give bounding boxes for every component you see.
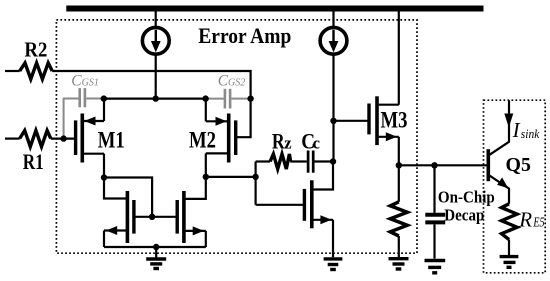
svg-text:Error Amp: Error Amp	[198, 23, 291, 48]
resistor R2	[20, 63, 53, 79]
node dot mirror gates	[149, 214, 155, 220]
transistor MS	[303, 189, 306, 221]
wire M3 gate	[334, 120, 370, 122]
transistor ML (mirror left NMOS)	[126, 191, 130, 243]
ground RE5	[500, 255, 519, 258]
resistor load (on-chip)	[390, 202, 407, 236]
node dot M1 drain	[101, 174, 107, 180]
current source I1	[142, 27, 169, 54]
node dot CGS1/M1 source	[101, 95, 107, 101]
wire M1 drain to mirror left drain	[104, 178, 126, 199]
node dot decap tee	[431, 162, 437, 168]
svg-text:Q5: Q5	[506, 154, 531, 176]
svg-text:c: c	[313, 134, 320, 153]
wire to Rz	[256, 160, 271, 162]
ground MS	[324, 257, 343, 260]
svg-text:I: I	[512, 118, 521, 142]
M2 gate wire to R2 column	[236, 99, 251, 138]
svg-text:R: R	[518, 207, 532, 231]
VDD power rail	[66, 6, 483, 12]
node dot mirror ground	[153, 244, 159, 250]
transistor MR (mirror right NMOS)	[182, 191, 186, 243]
wire load resistor column	[398, 165, 400, 202]
svg-text:sink: sink	[521, 127, 540, 141]
resistor Rz	[270, 154, 291, 169]
wire M2 source up to tail node	[205, 99, 207, 122]
svg-text:On-Chip: On-Chip	[438, 187, 495, 206]
wire Rz to Cc	[290, 160, 307, 162]
wire M3 source to output node	[398, 137, 400, 166]
wire first stage output	[206, 176, 256, 178]
wire decap to ground	[433, 224, 435, 258]
wire decap column	[433, 165, 435, 213]
wire M1 source up to tail node	[103, 99, 105, 121]
svg-text:M1: M1	[98, 127, 125, 153]
ground load resistor	[389, 257, 409, 260]
node dot second stage output	[330, 158, 336, 164]
node dot M2 source	[202, 95, 208, 101]
resistor R1	[20, 131, 51, 147]
capacitor on-chip decap	[425, 213, 445, 217]
svg-text:M3: M3	[381, 108, 408, 134]
wire tail from rail to current source	[155, 12, 157, 29]
wire output node to Q5 base	[399, 164, 487, 166]
wire R1 input stub	[5, 138, 20, 140]
wire current source to diff pair sources	[155, 54, 157, 98]
wire M1 drain node to mirror gate column	[104, 178, 152, 217]
node dot M3 gate	[330, 118, 336, 124]
current source I2	[320, 27, 347, 54]
wire M3 drain to rail	[398, 12, 400, 105]
capacitor Cc	[307, 151, 310, 173]
Q5 collector	[490, 100, 510, 155]
wire CS2 down to M3 gate and Cc node	[332, 54, 334, 161]
Error Amp dashed box	[56, 20, 417, 253]
capacitor CGS2 plates	[224, 89, 227, 109]
transistor M2 (PMOS right of diff pair)	[234, 120, 237, 155]
node dot tail	[153, 95, 159, 101]
ground decap	[425, 259, 446, 262]
node dot M2 drain	[203, 174, 209, 180]
svg-text:z: z	[284, 134, 291, 153]
wire M1 drain down	[103, 154, 105, 178]
Q5 emitter	[490, 176, 510, 204]
mirror bottom source rail	[104, 246, 206, 248]
wire output node vertical (to Rz and MS gate)	[255, 162, 257, 205]
wire RE5 to ground	[508, 240, 510, 256]
wire Cc to second stage drain node	[315, 160, 334, 162]
node dot first stage output	[252, 174, 258, 180]
resistor RE5	[502, 204, 518, 240]
node dot R2/CGS2/M2 gate	[247, 95, 253, 101]
node dot R1/CGS1/M1 gate	[60, 135, 66, 141]
wire R2 to M2 gate column	[52, 71, 250, 98]
svg-text:R2: R2	[24, 38, 47, 62]
transistor M3 (NMOS source follower)	[367, 104, 370, 135]
wire R2 input stub	[5, 70, 20, 72]
transistor M1 (PMOS left of diff pair)	[74, 120, 77, 155]
svg-text:M2: M2	[189, 127, 216, 153]
transistor Q5 (NPN) base bar	[486, 149, 490, 181]
wire MR drain	[186, 177, 206, 199]
wire diff pair common source node	[104, 97, 206, 99]
capacitor CGS1 gray branch wires	[64, 99, 79, 139]
wire ML source down to rail	[103, 231, 105, 248]
svg-text:E5: E5	[533, 216, 545, 231]
node dot regulator output	[396, 162, 402, 168]
wire MR source down to rail	[205, 231, 207, 247]
wire M2 drain down	[205, 153, 207, 177]
wire MS source to ground	[332, 220, 334, 257]
mirror gate wire	[134, 216, 177, 218]
ground mirror	[155, 247, 157, 257]
Q5 output stage dashed box	[484, 100, 546, 273]
wire CS2 from rail	[332, 12, 334, 29]
svg-text:R1: R1	[23, 149, 44, 174]
capacitor CGS1 plates	[78, 88, 81, 107]
transistor MS (second stage NMOS) gate wire	[256, 204, 305, 206]
wire load resistor to ground	[398, 236, 400, 257]
capacitor CGS2 gray branch wires	[206, 98, 224, 100]
svg-text:Decap: Decap	[444, 205, 484, 224]
wire R1 to M1 gate	[51, 138, 76, 140]
Isink arrow	[504, 114, 513, 128]
